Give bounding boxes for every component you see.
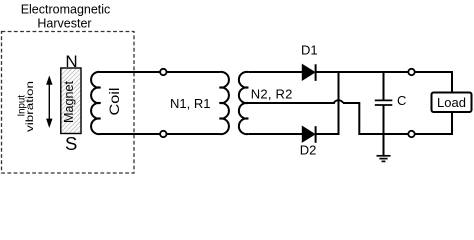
svg-text:N2, R2: N2, R2: [251, 87, 292, 102]
svg-text:D1: D1: [301, 42, 318, 57]
svg-text:Coil: Coil: [106, 88, 122, 116]
svg-text:N: N: [65, 52, 77, 71]
svg-text:vibration: vibration: [24, 81, 36, 132]
svg-text:Harvester: Harvester: [37, 16, 91, 30]
svg-text:C: C: [397, 93, 406, 108]
svg-text:Electromagnetic: Electromagnetic: [21, 2, 111, 16]
svg-text:Load: Load: [437, 95, 466, 110]
svg-text:N1, R1: N1, R1: [170, 96, 210, 111]
svg-text:D2: D2: [300, 143, 317, 158]
svg-text:Magnet: Magnet: [62, 80, 76, 123]
svg-text:S: S: [65, 133, 77, 154]
